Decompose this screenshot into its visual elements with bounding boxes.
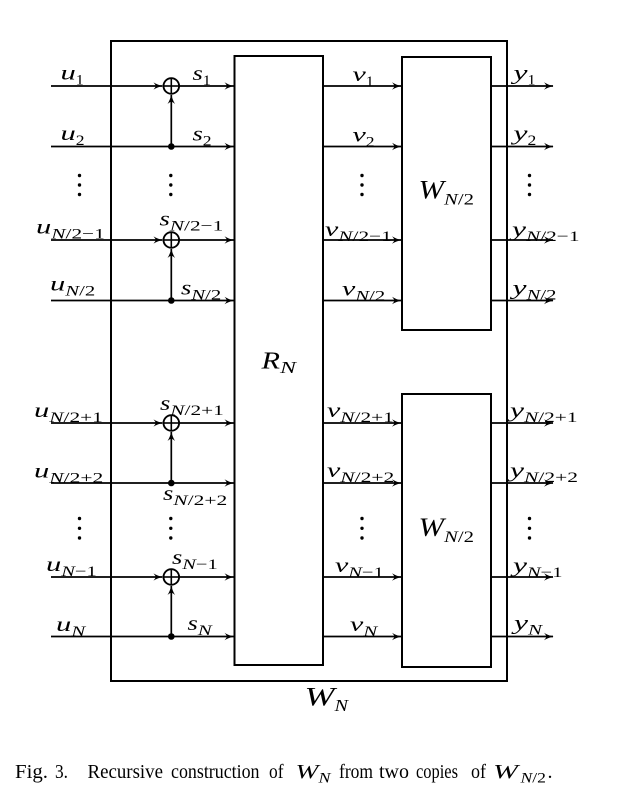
svg-text:two: two — [379, 761, 409, 783]
svg-text:Recursive: Recursive — [88, 761, 164, 783]
svg-text:copies: copies — [416, 761, 458, 783]
svg-text:3.: 3. — [55, 761, 68, 783]
svg-text:.: . — [548, 761, 553, 783]
svg-text:N: N — [317, 771, 332, 787]
svg-text:N/2: N/2 — [519, 771, 546, 787]
svg-text:of: of — [471, 761, 486, 783]
svg-text:W: W — [493, 761, 521, 783]
svg-text:construction: construction — [171, 761, 260, 783]
svg-text:Fig.: Fig. — [15, 761, 48, 783]
svg-text:from: from — [339, 761, 373, 783]
svg-text:of: of — [269, 761, 284, 783]
